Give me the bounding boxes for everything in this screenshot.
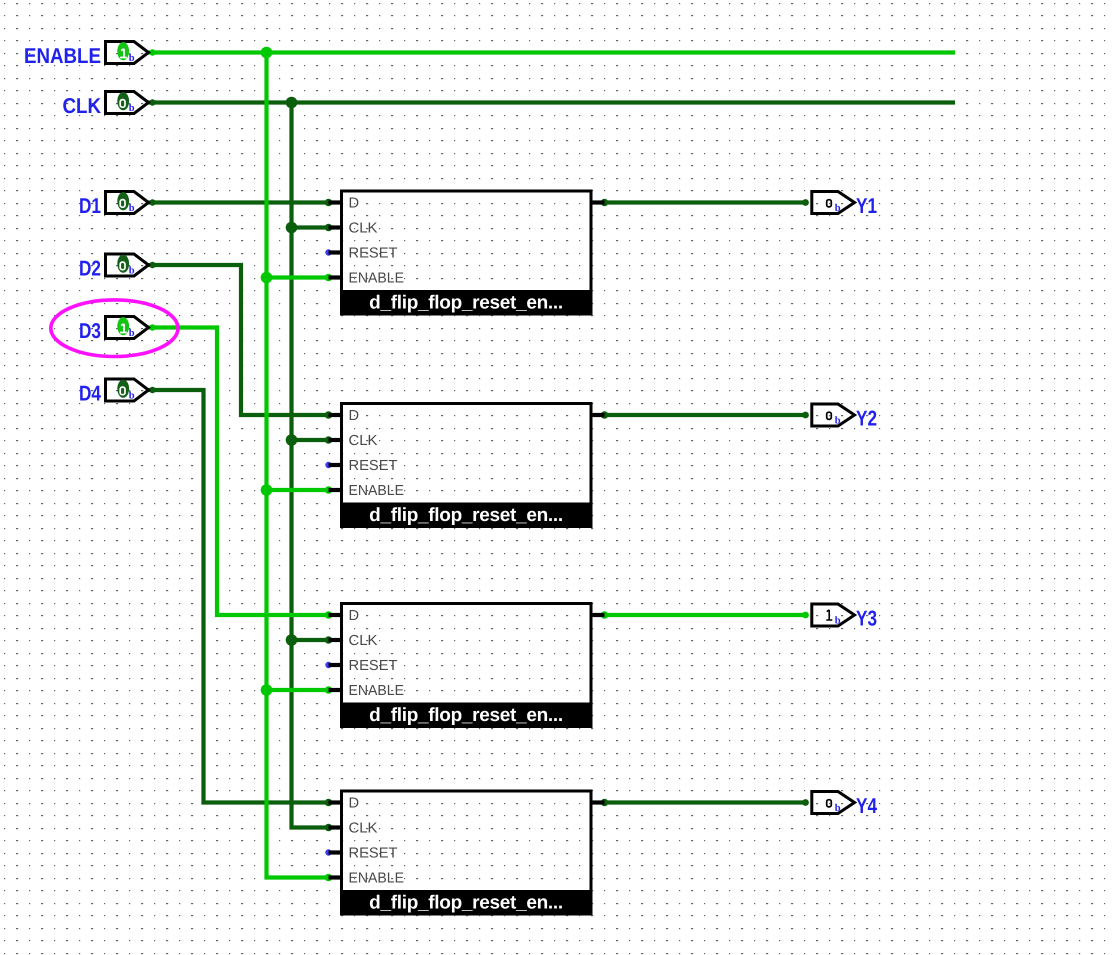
svg-text:RESET: RESET	[349, 458, 398, 474]
svg-text:RESET: RESET	[349, 845, 398, 861]
svg-text:D3: D3	[79, 319, 101, 343]
svg-text:b: b	[129, 328, 135, 339]
svg-text:D4: D4	[79, 382, 101, 406]
svg-text:D: D	[349, 608, 360, 624]
svg-text:RESET: RESET	[349, 658, 398, 674]
svg-text:D: D	[349, 195, 360, 211]
svg-text:b: b	[129, 391, 135, 402]
svg-text:ENABLE: ENABLE	[349, 870, 405, 886]
svg-text:b: b	[129, 203, 135, 214]
svg-text:CLK: CLK	[63, 94, 102, 118]
svg-text:b: b	[835, 416, 841, 427]
svg-text:d_flip_flop_reset_en...: d_flip_flop_reset_en...	[369, 292, 563, 313]
svg-text:d_flip_flop_reset_en...: d_flip_flop_reset_en...	[369, 505, 563, 526]
svg-text:D: D	[349, 795, 360, 811]
svg-text:CLK: CLK	[349, 433, 378, 449]
svg-text:CLK: CLK	[349, 633, 378, 649]
svg-text:b: b	[835, 203, 841, 214]
svg-text:D: D	[349, 408, 360, 424]
svg-text:d_flip_flop_reset_en...: d_flip_flop_reset_en...	[369, 705, 563, 726]
svg-text:Y1: Y1	[856, 194, 877, 218]
svg-text:D2: D2	[79, 257, 101, 281]
svg-text:Y3: Y3	[856, 607, 877, 631]
svg-text:D1: D1	[79, 194, 101, 218]
svg-text:RESET: RESET	[349, 245, 398, 261]
svg-text:Y2: Y2	[856, 407, 877, 431]
svg-text:ENABLE: ENABLE	[24, 44, 101, 68]
svg-text:b: b	[835, 803, 841, 814]
svg-text:b: b	[129, 266, 135, 277]
svg-text:b: b	[129, 53, 135, 64]
svg-text:ENABLE: ENABLE	[349, 270, 405, 286]
svg-text:d_flip_flop_reset_en...: d_flip_flop_reset_en...	[369, 892, 563, 913]
svg-text:ENABLE: ENABLE	[349, 683, 405, 699]
svg-text:b: b	[129, 103, 135, 114]
svg-text:CLK: CLK	[349, 820, 378, 836]
svg-text:Y4: Y4	[856, 794, 877, 818]
svg-text:CLK: CLK	[349, 220, 378, 236]
svg-text:b: b	[835, 616, 841, 627]
svg-text:ENABLE: ENABLE	[349, 483, 405, 499]
